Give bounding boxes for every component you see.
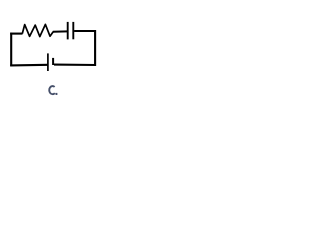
battery V long plate (positive) [47, 53, 49, 71]
label c (caption letter) [49, 86, 55, 94]
label . (caption period) [56, 93, 58, 95]
wire: capacitor to top-right corner [74, 30, 96, 32]
resistor R (zigzag) [22, 24, 53, 36]
wire: bottom-left horizontal from battery to corner [10, 64, 48, 67]
wire: left vertical side of loop [10, 33, 12, 67]
wire: bottom-right horizontal from corner to battery [54, 64, 96, 67]
battery V short plate (negative) [52, 58, 54, 65]
capacitor C left plate [67, 22, 69, 40]
wire: resistor to capacitor [53, 30, 68, 32]
wire: top-left horizontal from corner to resistor [10, 33, 22, 35]
capacitor C right plate [72, 22, 74, 39]
wire: right vertical side of loop [94, 30, 96, 66]
